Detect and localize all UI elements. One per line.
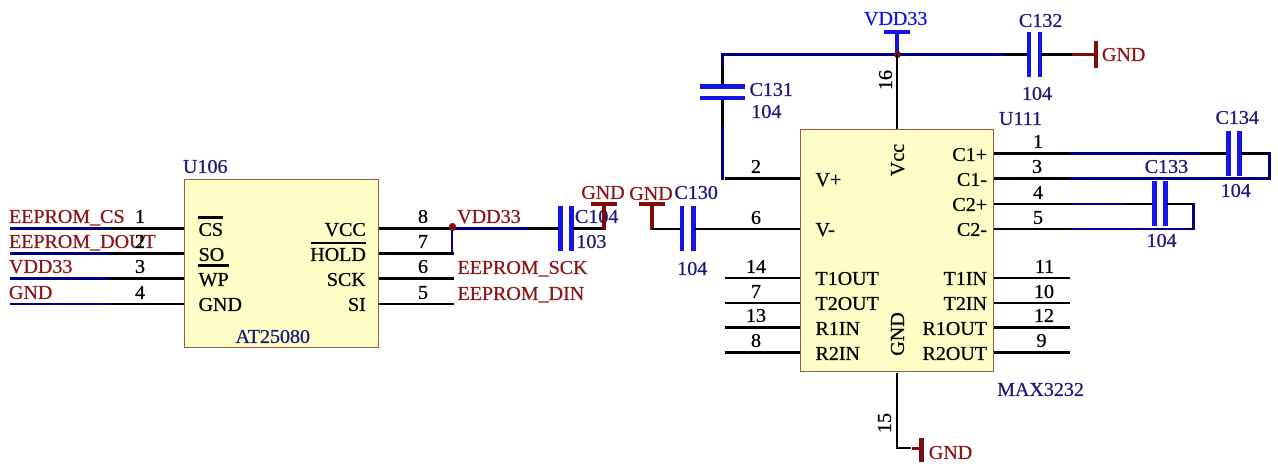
pin name HOLD bbox=[310, 245, 366, 265]
pin number 15 bbox=[875, 413, 895, 433]
pin 8 of U111 bbox=[725, 351, 800, 354]
pin 4 of U106 bbox=[110, 303, 184, 306]
ground port at C132 bbox=[1072, 53, 1096, 56]
pin name V- bbox=[816, 220, 835, 240]
value MAX3232 bbox=[997, 380, 1084, 400]
pin 8 of U106 bbox=[379, 227, 454, 230]
value 104 of C133 bbox=[1147, 231, 1177, 251]
pin name C2- bbox=[957, 220, 987, 240]
pin 12 of U111 bbox=[994, 326, 1071, 329]
pin name SO bbox=[199, 245, 225, 265]
net label VDD33 bbox=[9, 257, 72, 277]
C132 left lead bbox=[1004, 53, 1027, 56]
capacitor C104 bbox=[558, 206, 563, 251]
pin number 5 bbox=[1033, 208, 1043, 228]
pin 3 of U106 bbox=[110, 277, 184, 280]
pin number 7 bbox=[751, 282, 761, 302]
wire net GND bbox=[10, 303, 111, 306]
junction VDD33 rail bbox=[894, 51, 902, 59]
C133 right lead bbox=[1167, 203, 1194, 206]
designator C130 bbox=[675, 183, 718, 203]
designator C134 bbox=[1216, 108, 1259, 128]
pin name V+ bbox=[816, 170, 842, 190]
designator C104 bbox=[575, 207, 618, 227]
C134 right lead bbox=[1241, 152, 1268, 155]
pin name GND of U111 bbox=[888, 312, 908, 355]
overline CS bbox=[198, 216, 224, 218]
pin 10 of U111 bbox=[994, 302, 1071, 305]
C104 right lead bbox=[573, 227, 604, 230]
designator U106 bbox=[183, 157, 227, 177]
designator C131 bbox=[750, 80, 793, 100]
value 103 bbox=[576, 232, 606, 252]
pin number 10 bbox=[1034, 282, 1054, 302]
pin number 4 bbox=[1033, 183, 1043, 203]
pin name VCC bbox=[325, 220, 366, 240]
wire VDD33 to C104 bbox=[452, 227, 529, 230]
wire back to pin 3 bbox=[1070, 177, 1271, 180]
ground port at pin 15 bbox=[912, 447, 922, 450]
pin name R2OUT bbox=[923, 344, 987, 364]
pin number 11 bbox=[1035, 257, 1054, 277]
C131 top lead bbox=[721, 66, 724, 85]
junction at U106 pin 8 bbox=[449, 223, 457, 231]
pin number 4 bbox=[135, 283, 145, 303]
ground port at C130 bbox=[650, 204, 653, 230]
wire back to pin 5 bbox=[1070, 228, 1195, 231]
pin name GND bbox=[199, 295, 242, 315]
pin number 1 bbox=[135, 207, 145, 227]
wire VDD33 rail bbox=[723, 53, 1005, 56]
pin number 1 bbox=[1033, 132, 1043, 152]
capacitor C133 bbox=[1152, 181, 1157, 226]
pin 7 of U111 bbox=[725, 302, 800, 305]
pin number 8 bbox=[751, 331, 761, 351]
pin number 2 bbox=[751, 157, 761, 177]
C130 right lead bbox=[695, 228, 725, 231]
overline WP bbox=[198, 264, 230, 266]
pin name T1IN bbox=[944, 269, 987, 289]
pin 3 of U111 bbox=[994, 177, 1071, 180]
value 104 of C132 bbox=[1022, 84, 1052, 104]
wire pin 15 to ground bbox=[897, 447, 911, 450]
value AT25080 bbox=[236, 327, 310, 347]
pin 15 of U111 bbox=[896, 373, 899, 450]
pin name WP bbox=[199, 270, 229, 290]
pin 1 of U111 bbox=[994, 152, 1071, 155]
pin number 3 bbox=[1032, 157, 1042, 177]
net label EEPROM_SCK bbox=[458, 258, 588, 278]
pin 14 of U111 bbox=[725, 277, 800, 280]
pin name T2OUT bbox=[816, 294, 879, 314]
pin 7 of U106 bbox=[379, 252, 454, 255]
pin name SI bbox=[348, 295, 366, 315]
wire net VDD33 bbox=[10, 277, 111, 280]
pin 13 of U111 bbox=[725, 326, 800, 329]
wire C134 down to pin 3 net bbox=[1268, 152, 1271, 180]
pin name C1+ bbox=[952, 145, 987, 165]
designator U111 bbox=[999, 109, 1042, 129]
pin 2 of U111 bbox=[725, 177, 800, 180]
wire rail corner down bbox=[721, 53, 724, 66]
pin 4 of U111 bbox=[994, 203, 1071, 206]
wire pin4 to C133 bbox=[1070, 203, 1126, 206]
value 104 of C130 bbox=[677, 259, 707, 279]
wire net EEPROM_DOUT bbox=[10, 252, 111, 255]
pin number 7 bbox=[418, 232, 428, 252]
pin name Vcc bbox=[888, 143, 908, 175]
pin number 13 bbox=[746, 306, 766, 326]
pin name CS bbox=[199, 220, 223, 240]
C133 left lead bbox=[1126, 203, 1153, 206]
pin 5 of U111 bbox=[994, 228, 1071, 231]
pin number 6 bbox=[751, 208, 761, 228]
pin number 5 bbox=[418, 283, 428, 303]
ground port at C104 bbox=[602, 204, 605, 230]
pin name R1IN bbox=[816, 319, 860, 339]
net label GND bbox=[9, 283, 52, 303]
C130 left lead bbox=[652, 228, 681, 231]
pin number 6 bbox=[418, 257, 428, 277]
net label EEPROM_DOUT bbox=[9, 232, 156, 252]
C132 right lead bbox=[1041, 53, 1072, 56]
pin name C2+ bbox=[952, 195, 987, 215]
overline HOLD bbox=[311, 242, 366, 244]
capacitor C132 bbox=[1027, 32, 1032, 77]
C104 left lead bbox=[529, 227, 559, 230]
pin name T1OUT bbox=[816, 269, 879, 289]
pin 6 of U111 bbox=[725, 228, 800, 231]
IC U106 AT25080 body bbox=[184, 179, 378, 349]
net label EEPROM_DIN bbox=[458, 284, 585, 304]
C131 bottom lead bbox=[721, 100, 724, 126]
capacitor C130 bbox=[680, 206, 685, 251]
net label EEPROM_CS bbox=[9, 207, 125, 227]
pin number 8 bbox=[418, 207, 428, 227]
value 104 of C131 bbox=[751, 102, 781, 122]
pin number 14 bbox=[746, 257, 766, 277]
pin number 9 bbox=[1037, 331, 1047, 351]
pin 5 of U106 bbox=[379, 303, 454, 306]
power port VDD33 bbox=[895, 32, 898, 55]
IC U111 MAX3232 body bbox=[800, 129, 994, 373]
pin 16 of U111 bbox=[896, 54, 899, 128]
wire C133 down to pin 5 net bbox=[1192, 203, 1195, 231]
pin 11 of U111 bbox=[994, 277, 1071, 280]
pin 9 of U111 bbox=[994, 351, 1071, 354]
designator C132 bbox=[1019, 11, 1062, 31]
pin name C1- bbox=[957, 170, 987, 190]
pin number 3 bbox=[135, 257, 145, 277]
pin name R1OUT bbox=[923, 319, 987, 339]
pin number 12 bbox=[1034, 306, 1054, 326]
wire net EEPROM_CS bbox=[10, 227, 111, 230]
pin 6 of U106 bbox=[379, 277, 454, 280]
pin 2 of U106 bbox=[110, 252, 184, 255]
wire pin7 to pin8 junction bbox=[451, 229, 454, 254]
pin name SCK bbox=[327, 270, 366, 290]
pin number 16 bbox=[876, 70, 896, 90]
pin name T2IN bbox=[944, 294, 987, 314]
designator C133 bbox=[1145, 157, 1188, 177]
pin number 2 bbox=[135, 232, 145, 252]
value 104 of C134 bbox=[1221, 181, 1251, 201]
net label VDD33 bbox=[457, 207, 520, 227]
wire C131 to U111 pin 2 bbox=[721, 126, 724, 180]
wire pin1 to C134 bbox=[1070, 152, 1201, 155]
C134 left lead bbox=[1201, 152, 1228, 155]
pin 1 of U106 bbox=[110, 227, 184, 230]
capacitor C134 bbox=[1226, 131, 1231, 176]
capacitor C131 bbox=[700, 84, 745, 89]
pin name R2IN bbox=[816, 344, 860, 364]
